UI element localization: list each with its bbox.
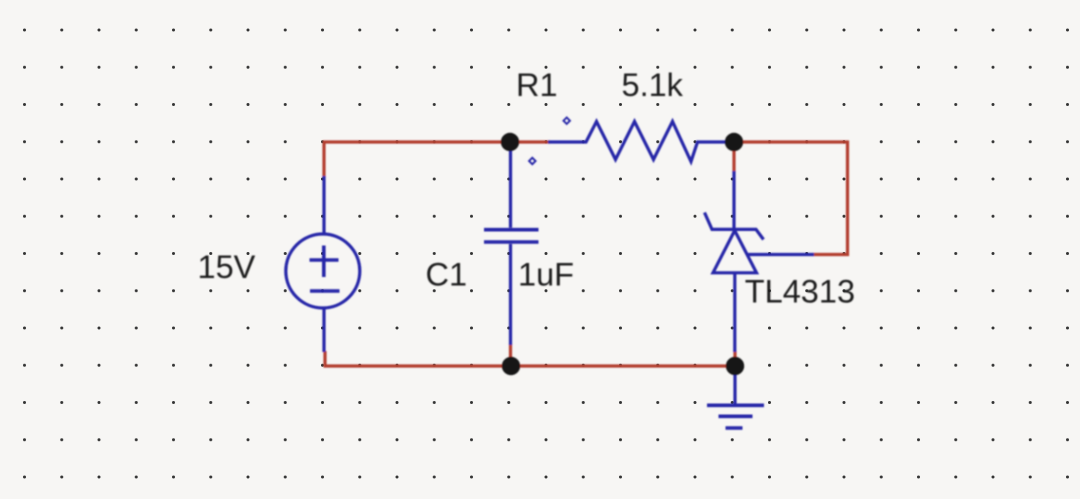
svg-text:C1: C1 xyxy=(426,257,468,293)
svg-text:15V: 15V xyxy=(198,249,256,285)
svg-text:5.1k: 5.1k xyxy=(622,67,684,103)
svg-text:TL4313: TL4313 xyxy=(745,274,855,310)
svg-text:R1: R1 xyxy=(516,67,558,103)
svg-text:1uF: 1uF xyxy=(518,257,574,293)
